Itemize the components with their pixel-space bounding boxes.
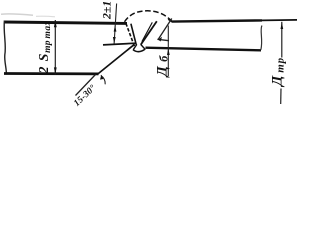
left pipe bottom edge: [4, 72, 99, 75]
right pipe bottom edge: [146, 48, 262, 51]
svg-text:Дтр: Дтр: [270, 57, 287, 88]
arrow down 2+-1: [113, 37, 116, 43]
right pipe top edge: [172, 20, 262, 21]
svg-text:Дб: Дб: [155, 51, 171, 78]
bore taper line 15-30: [97, 44, 135, 74]
svg-text:2 Sтрmax: 2 Sтрmax: [37, 20, 53, 74]
left pipe top edge: [4, 22, 127, 23]
top edge extension thin: [262, 19, 297, 22]
label 2+-1: [99, 1, 113, 20]
dim line Dtp upper: [281, 22, 283, 58]
dim line Dtp lower: [280, 89, 282, 105]
arrow down: [54, 67, 57, 74]
right groove fusion line: [142, 22, 152, 41]
leader arrowhead: [158, 37, 162, 42]
arrow up: [54, 20, 57, 27]
root right connector: [141, 44, 145, 49]
dimension line 2+-1: [114, 4, 117, 44]
cap right landing: [168, 19, 172, 22]
left groove fusion line: [131, 24, 136, 45]
dimension line 2 Stp max: [54, 20, 56, 75]
arrow up 2+-1: [114, 25, 117, 32]
arrow Db: [167, 48, 170, 55]
root bead: [133, 49, 145, 52]
scan smudge: [1, 14, 33, 15]
left pipe break line: [4, 21, 6, 75]
leader bar: [157, 39, 169, 40]
right groove face: [141, 21, 157, 44]
label Db: [155, 51, 171, 78]
extension line for 2+-1: [103, 43, 136, 45]
label 2 Stp max: [37, 20, 53, 74]
dim line Db: [167, 26, 169, 77]
weld cap dashed: [125, 11, 172, 22]
arrow Dtp: [281, 22, 284, 29]
angle arc arrowhead: [100, 75, 103, 80]
taper extension leader: [76, 75, 96, 96]
left groove face dashed: [126, 23, 135, 46]
right pipe break line: [261, 26, 262, 50]
root left connector: [133, 44, 137, 49]
leader diagonal right: [158, 19, 172, 40]
label Dtp: [270, 57, 287, 88]
svg-text:2±1: 2±1: [99, 1, 113, 20]
angle dimension arc: [101, 75, 105, 84]
